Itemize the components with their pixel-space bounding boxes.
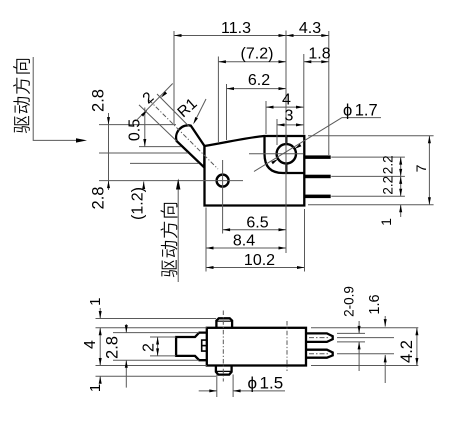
svg-text:4.2: 4.2: [398, 340, 416, 363]
extension line (lever free position): [139, 146, 181, 148]
svg-text:11.3: 11.3: [221, 20, 251, 37]
dimension 4.3: [286, 20, 329, 37]
top dimension extension lines: [173, 31, 175, 124]
svg-text:1.6: 1.6: [367, 294, 383, 314]
body (side view): [207, 328, 306, 366]
svg-text:2.8: 2.8: [90, 89, 108, 112]
dimension 0.5: [127, 108, 147, 147]
small hole vertical centerline: [222, 160, 224, 234]
dimension 6.5: [223, 214, 286, 231]
bottom dimension extension lines: [205, 208, 207, 272]
svg-text:6.5: 6.5: [246, 214, 268, 231]
boss centerline (dash-dot): [222, 311, 224, 382]
right side extension lines: [308, 135, 434, 137]
terminal pin 2 (top view): [304, 175, 330, 179]
svg-text:2.8: 2.8: [104, 336, 122, 359]
dimension 2-0.9 (pin thickness): [342, 286, 361, 371]
bottom boss (side view): [216, 366, 232, 375]
svg-text:4.3: 4.3: [299, 20, 321, 37]
hole centerline (dash-dot, lower view): [286, 321, 288, 371]
svg-text:1: 1: [87, 298, 104, 306]
dimension 4: [266, 92, 304, 109]
svg-text:(1.2): (1.2): [130, 187, 147, 220]
small hole: [217, 175, 229, 187]
dimension 1 / 4 / 1 (left column): [82, 298, 104, 393]
extension line B (big hole center ext): [99, 152, 188, 154]
dimension 2.8 (lower): [104, 324, 128, 388]
dimension 3: [277, 108, 304, 127]
svg-text:2-0.9: 2-0.9: [342, 286, 357, 317]
svg-text:2: 2: [141, 343, 158, 352]
big hole (phi 1.7): [277, 144, 296, 163]
dimension 2.8 / 2.8 (left column): [90, 89, 111, 209]
lower view right extension lines: [311, 327, 418, 329]
lever contact detail: [202, 340, 207, 351]
dimension 2.2 (pin2-pin3): [381, 176, 403, 196]
small hole horizontal centerline / line C: [99, 180, 243, 182]
dimension 6.2: [227, 72, 287, 90]
big hole horizontal centerline: [249, 153, 304, 155]
label phi1.7 with leader through hole: [254, 102, 381, 172]
dimension 8.4: [206, 233, 286, 250]
dimension (1.2): [130, 182, 147, 220]
svg-text:10.2: 10.2: [244, 252, 275, 269]
terminal pin 3 (top view): [304, 195, 330, 199]
svg-text:1.8: 1.8: [308, 46, 330, 63]
extension line A (lever tip top): [99, 124, 176, 126]
body internal step with fillet: [265, 136, 305, 173]
svg-text:2.2: 2.2: [381, 176, 396, 195]
dimension 7 (overall height): [413, 136, 431, 205]
terminal pin 1 (top view): [304, 155, 330, 159]
svg-text:1: 1: [87, 384, 104, 392]
big hole vertical centerline (long): [285, 31, 287, 254]
dimension 2 (lever thickness): [141, 337, 160, 356]
svg-text:ϕ1.5: ϕ1.5: [248, 374, 284, 393]
dimension 1.8: [304, 46, 331, 64]
dimension 1 (pin3 to bottom): [378, 205, 402, 226]
lower view extension lines (left): [96, 318, 217, 320]
pin 2 (side view): [306, 350, 333, 358]
drive-direction label (below body): [160, 179, 180, 283]
dimension 1.6 (pin pitch): [367, 294, 387, 383]
svg-text:8.4: 8.4: [233, 233, 255, 250]
svg-text:1: 1: [378, 218, 394, 226]
top boss (side view): [216, 318, 232, 328]
svg-text:2.8: 2.8: [90, 187, 108, 210]
svg-text:(7.2): (7.2): [241, 46, 274, 63]
lever upper edge extension: [157, 94, 189, 126]
svg-text:4: 4: [282, 92, 291, 109]
dimension 11.3: [174, 20, 286, 37]
dimension (7.2): [218, 46, 286, 64]
svg-text:7: 7: [413, 164, 429, 172]
svg-text:3: 3: [285, 108, 294, 125]
svg-text:2.2: 2.2: [381, 155, 396, 174]
switch body outline (top view): [205, 136, 305, 206]
svg-text:ϕ1.7: ϕ1.7: [343, 102, 378, 120]
dimension 2 (lever width, diagonal): [137, 84, 173, 121]
lever lower edge extension: [139, 105, 177, 141]
pin 1 (side view): [306, 333, 333, 342]
extension line (lever operating position): [130, 162, 199, 164]
label R1 with leader: [174, 95, 206, 124]
svg-text:6.2: 6.2: [248, 72, 270, 89]
lever arm (top view): [176, 125, 204, 167]
lever centerline (dash-dot): [149, 100, 218, 169]
pin centerlines (dash-dot): [309, 337, 330, 339]
dimension 4.2 (body height): [398, 328, 418, 366]
drive-direction label (left): [13, 57, 87, 143]
dimension phi1.5 (boss dia): [199, 374, 285, 398]
dimension 2.2 (pin1-pin2): [381, 155, 403, 176]
svg-text:0.5: 0.5: [127, 119, 144, 141]
dimension 10.2: [206, 252, 305, 269]
svg-text:4: 4: [82, 340, 99, 349]
hole boss section lines: [285, 136, 287, 145]
lever (side view): [176, 333, 207, 361]
